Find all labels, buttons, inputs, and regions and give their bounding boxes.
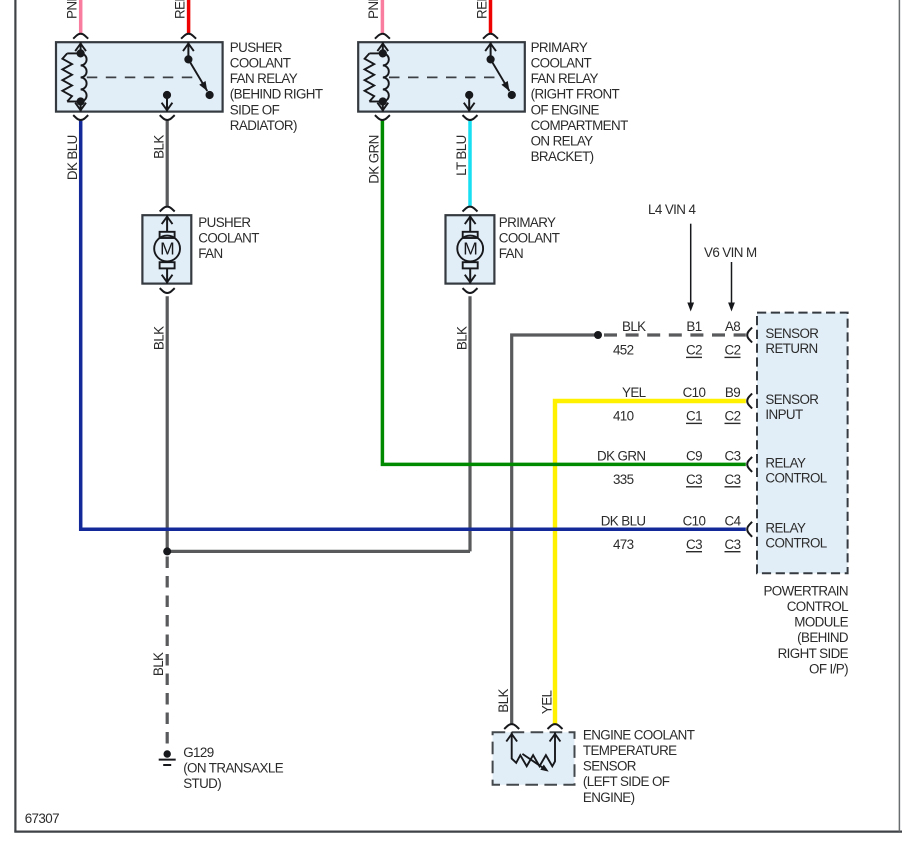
connector half: ECT sensor YEL terminal: [548, 724, 563, 729]
wire label BLK (relay to pusher fan): [152, 135, 167, 159]
svg-text:BLK: BLK: [496, 689, 511, 713]
svg-text:C2: C2: [686, 343, 702, 358]
svg-text:C3: C3: [725, 537, 741, 552]
node: splice junction of BLK grounds: [163, 547, 171, 555]
label: POWERTRAIN CONTROL MODULE name: [763, 583, 848, 676]
wire: PNK feed to pusher relay coil: [79, 0, 83, 33]
wire BLK 452 (dashed) to PCM SENSOR RETURN: [604, 333, 746, 336]
connector half: primary relay switch output bottom: [463, 115, 478, 120]
svg-text:BLK: BLK: [454, 326, 469, 350]
svg-text:C2: C2: [725, 343, 741, 358]
primary coolant fan relay: switch moving contact arm: [491, 59, 516, 99]
svg-text:67307: 67307: [25, 811, 59, 826]
wire label BLK (ground run): [151, 652, 166, 676]
pusher coolant fan: fan motor box: [142, 215, 191, 283]
wire: PNK feed to primary relay coil: [381, 0, 385, 33]
svg-text:SENSOR: SENSOR: [765, 326, 819, 341]
pusher coolant fan relay: switch moving contact arm: [188, 59, 213, 99]
svg-text:C3: C3: [725, 472, 741, 487]
svg-text:RELAY: RELAY: [765, 455, 806, 470]
svg-text:C9: C9: [686, 448, 702, 463]
connector half: ECT sensor BLK terminal: [504, 724, 519, 729]
primary coolant fan relay: switch common pin (top): [485, 42, 496, 63]
svg-text:C3: C3: [725, 448, 741, 463]
wire YEL 410: from ECT sensor up then right to PCM SENSOR INPUT: [555, 401, 746, 724]
svg-text:RETURN: RETURN: [765, 341, 817, 356]
svg-text:L4 VIN 4: L4 VIN 4: [648, 202, 696, 217]
svg-text:COOLANT: COOLANT: [198, 231, 259, 246]
wire label LT BLU: [454, 135, 469, 176]
label: V6 VIN M variant: [704, 245, 757, 260]
svg-text:M: M: [463, 239, 477, 259]
svg-text:PRIMARY: PRIMARY: [499, 215, 556, 230]
wire BLK: below primary fan down to corner: [468, 296, 471, 551]
svg-text:POWERTRAIN: POWERTRAIN: [763, 583, 848, 598]
connector label C2 (underlined): [686, 343, 702, 358]
svg-text:BRACKET): BRACKET): [531, 149, 594, 164]
svg-text:FAN: FAN: [198, 246, 222, 261]
primary coolant fan relay: actuation dashed link coil-to-switch: [389, 76, 501, 78]
svg-text:COOLANT: COOLANT: [230, 56, 291, 71]
connector half: primary fan bottom: [463, 288, 478, 293]
primary coolant fan: motor symbol M: [457, 215, 483, 283]
pusher coolant fan relay: switch output pin (bottom middle): [162, 91, 173, 112]
svg-text:(RIGHT FRONT: (RIGHT FRONT: [531, 87, 620, 102]
value label: wire color YEL circuit 410: [613, 385, 646, 424]
connector label C1 (underlined): [686, 409, 702, 424]
svg-text:COMPARTMENT: COMPARTMENT: [531, 118, 628, 133]
pusher coolant fan relay: coil inductor winding: [81, 53, 87, 101]
svg-text:RADIATOR): RADIATOR): [230, 118, 297, 133]
label: L4 VIN 4 variant: [648, 202, 696, 217]
arrow: L4 VIN 4 points to pin B1: [687, 224, 694, 312]
connector half: PCM relay control (primary) pin: [747, 457, 752, 472]
svg-text:C10: C10: [683, 385, 706, 400]
svg-text:YEL: YEL: [622, 385, 646, 400]
connector label C3 (underlined): [686, 472, 702, 487]
wire BLK (dashed): splice down to ground G129: [166, 557, 169, 750]
svg-text:DK GRN: DK GRN: [367, 135, 382, 183]
wire BLK: sensor return from ECT sensor up and right to splice dot: [512, 335, 598, 724]
value label: wire color BLK circuit 452: [613, 319, 646, 358]
svg-text:DK BLU: DK BLU: [65, 135, 80, 180]
wire label BLK (below pusher fan): [152, 326, 167, 350]
label: pusher coolant fan name: [198, 215, 259, 261]
label: ground G129 name: [183, 745, 284, 791]
svg-text:ENGINE): ENGINE): [583, 790, 635, 805]
svg-text:STUD): STUD): [183, 776, 221, 791]
svg-text:ENGINE COOLANT: ENGINE COOLANT: [583, 727, 695, 742]
label: primary coolant fan relay name: [531, 40, 628, 164]
svg-text:BLK: BLK: [152, 135, 167, 159]
svg-text:PNK: PNK: [65, 0, 80, 19]
arrow: V6 VIN M points to pin A8: [728, 262, 735, 312]
wire label PNK (primary relay): [366, 0, 381, 19]
svg-text:C1: C1: [686, 409, 702, 424]
wire label RED (primary relay): [474, 0, 489, 19]
pin label C4 (V6 pin, relay control (pusher)): [725, 513, 742, 528]
primary coolant fan relay: switch output pin (bottom middle): [464, 91, 475, 112]
svg-text:335: 335: [613, 472, 634, 487]
svg-text:MODULE: MODULE: [794, 615, 848, 630]
pusher coolant fan relay: relay box: [56, 42, 223, 111]
wire DK BLU 473: pusher relay coil down then right to PCM RELAY CONTROL: [81, 121, 746, 530]
node: splice on BLK sensor return circuit 452: [594, 331, 602, 339]
wire DK GRN 335: primary relay coil down then right to PCM RELAY CONTROL: [382, 121, 745, 465]
svg-text:ON RELAY: ON RELAY: [531, 134, 594, 149]
svg-text:INPUT: INPUT: [765, 407, 803, 422]
svg-text:COOLANT: COOLANT: [499, 231, 560, 246]
svg-text:V6 VIN M: V6 VIN M: [704, 245, 757, 260]
svg-text:COOLANT: COOLANT: [531, 56, 592, 71]
svg-text:RED: RED: [172, 0, 187, 19]
pin label C10 (L4 pin, relay control (pusher)): [683, 513, 706, 528]
ground G129 symbol: [159, 750, 176, 765]
connector half: primary fan top: [463, 207, 478, 212]
svg-text:RELAY: RELAY: [765, 520, 806, 535]
connector half: PCM sensor return pin: [747, 328, 752, 343]
label: PCM pin function RELAY CONTROL (primary): [765, 455, 826, 485]
svg-text:RED: RED: [474, 0, 489, 19]
connector label C3 (underlined): [686, 537, 702, 552]
svg-text:TEMPERATURE: TEMPERATURE: [583, 743, 677, 758]
svg-text:FAN RELAY: FAN RELAY: [230, 71, 298, 86]
svg-text:DK BLU: DK BLU: [601, 513, 646, 528]
svg-text:C2: C2: [725, 409, 741, 424]
wire: RED feed to primary relay switch: [489, 0, 493, 33]
svg-text:PUSHER: PUSHER: [230, 40, 283, 55]
svg-text:(ON TRANSAXLE: (ON TRANSAXLE: [183, 761, 284, 776]
connector half: pusher relay coil bottom: [73, 115, 88, 120]
module: POWERTRAIN CONTROL MODULE (PCM) box: [757, 313, 848, 574]
primary coolant fan relay: coil resistor (parallel element): [365, 53, 383, 101]
wire label YEL (at sensor): [539, 690, 554, 714]
pin label A8 (V6 pin, sensor return): [725, 319, 740, 334]
connector label C3 (underlined): [725, 537, 741, 552]
svg-text:A8: A8: [725, 319, 740, 334]
svg-text:(BEHIND: (BEHIND: [797, 630, 849, 645]
wire label DK GRN (at relay): [367, 135, 382, 183]
svg-text:C3: C3: [686, 537, 702, 552]
connector half: PCM sensor input pin: [747, 394, 752, 409]
pin label B9 (V6 pin, sensor input): [725, 385, 740, 400]
connector half: pusher relay coil top: [73, 34, 88, 39]
connector half: pusher fan bottom: [160, 288, 175, 293]
svg-text:M: M: [160, 239, 174, 259]
svg-text:DK GRN: DK GRN: [597, 448, 645, 463]
connector half: pusher fan top: [160, 207, 175, 212]
wire label RED (pusher relay): [172, 0, 187, 19]
connector label C2 (underlined): [725, 343, 741, 358]
pusher coolant fan relay: actuation dashed link coil-to-switch: [87, 76, 199, 78]
value label: wire color DK BLU circuit 473: [601, 513, 646, 552]
svg-text:LT BLU: LT BLU: [454, 135, 469, 176]
svg-text:OF I/P): OF I/P): [809, 661, 848, 676]
primary coolant fan relay: coil terminal pin (bottom): [377, 97, 388, 111]
svg-text:FAN: FAN: [499, 246, 523, 261]
connector half: primary relay coil top: [375, 34, 390, 39]
pin label B1 (L4 pin, sensor return): [686, 319, 701, 334]
pusher coolant fan relay: switch common pin (top): [183, 42, 194, 63]
svg-text:RIGHT SIDE: RIGHT SIDE: [778, 646, 849, 661]
svg-text:YEL: YEL: [539, 690, 554, 714]
wire label BLK (sensor return at sensor): [496, 689, 511, 713]
primary coolant fan relay: coil terminal pin (top): [377, 42, 388, 57]
pin label C3 (V6 pin, relay control (primary)): [725, 448, 741, 463]
pusher coolant fan relay: coil terminal pin (top): [75, 42, 86, 57]
connector half: primary relay coil bottom: [375, 115, 390, 120]
value label: wire color DK GRN circuit 335: [597, 448, 645, 487]
connector half: PCM relay control (pusher) pin: [747, 522, 752, 537]
svg-text:410: 410: [613, 409, 634, 424]
svg-text:PUSHER: PUSHER: [198, 215, 251, 230]
connector half: primary relay switch top: [483, 34, 498, 39]
primary coolant fan relay: coil inductor winding: [383, 53, 389, 101]
pusher coolant fan: motor symbol M: [154, 215, 180, 283]
thermistor: ECT variable resistor element: [506, 732, 560, 771]
svg-text:C3: C3: [686, 472, 702, 487]
svg-text:C4: C4: [725, 513, 742, 528]
svg-text:BLK: BLK: [152, 326, 167, 350]
svg-text:BLK: BLK: [151, 652, 166, 676]
svg-text:FAN RELAY: FAN RELAY: [531, 71, 599, 86]
pin label C9 (L4 pin, relay control (primary)): [686, 448, 702, 463]
svg-text:CONTROL: CONTROL: [765, 536, 826, 551]
connector half: pusher relay switch top: [181, 34, 196, 39]
svg-text:(LEFT SIDE OF: (LEFT SIDE OF: [583, 774, 670, 789]
connector half: pusher relay switch output bottom: [160, 115, 175, 120]
wire label BLK (below primary fan): [454, 326, 469, 350]
sensor: ENGINE COOLANT TEMPERATURE SENSOR box: [493, 732, 575, 785]
svg-text:G129: G129: [183, 745, 214, 760]
svg-text:OF ENGINE: OF ENGINE: [531, 102, 600, 117]
svg-text:BLK: BLK: [622, 319, 646, 334]
svg-text:473: 473: [613, 537, 634, 552]
label: PCM pin function RELAY CONTROL (pusher): [765, 520, 826, 550]
pin label C10 (L4 pin, sensor input): [683, 385, 706, 400]
svg-text:(BEHIND RIGHT: (BEHIND RIGHT: [230, 87, 323, 102]
connector label C3 (underlined): [725, 472, 741, 487]
svg-text:C10: C10: [683, 513, 706, 528]
pusher coolant fan relay: coil resistor (parallel element): [62, 53, 80, 101]
wire BLK: pusher relay switch output down to pusher fan: [166, 121, 169, 206]
label: engine coolant temperature sensor name: [583, 727, 695, 804]
svg-text:SENSOR: SENSOR: [765, 392, 819, 407]
svg-text:CONTROL: CONTROL: [787, 599, 848, 614]
svg-text:B9: B9: [725, 385, 740, 400]
connector label C2 (underlined): [725, 409, 741, 424]
svg-text:SENSOR: SENSOR: [583, 759, 637, 774]
svg-text:CONTROL: CONTROL: [765, 471, 826, 486]
label: primary coolant fan name: [499, 215, 560, 261]
wire BLK: below pusher fan down to splice junction: [166, 296, 169, 551]
label: PCM pin function SENSOR INPUT: [765, 392, 819, 422]
wire label DK BLU (at relay): [65, 135, 80, 180]
svg-text:PNK: PNK: [366, 0, 381, 19]
label: pusher coolant fan relay name: [230, 40, 323, 133]
value label: sheet number 67307: [25, 811, 59, 826]
primary coolant fan relay: relay box: [358, 42, 525, 111]
wire: RED feed to pusher relay switch: [187, 0, 191, 33]
wire LT BLU: primary relay switch output to primary fan: [468, 121, 472, 206]
svg-text:SIDE OF: SIDE OF: [230, 102, 280, 117]
svg-text:B1: B1: [686, 319, 701, 334]
svg-text:PRIMARY: PRIMARY: [531, 40, 588, 55]
svg-text:452: 452: [613, 343, 634, 358]
primary coolant fan: fan motor box: [446, 215, 495, 283]
label: PCM pin function SENSOR RETURN: [765, 326, 819, 356]
pusher coolant fan relay: coil terminal pin (bottom): [75, 97, 86, 111]
wire label PNK (pusher relay): [65, 0, 80, 19]
wire BLK: horizontal run from primary-fan corner to splice: [167, 550, 470, 553]
